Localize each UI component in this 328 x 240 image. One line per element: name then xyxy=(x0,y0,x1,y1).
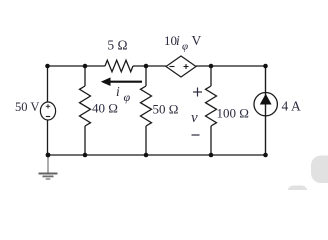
svg-text:50 Ω: 50 Ω xyxy=(153,102,179,117)
wire dependent source to top-right corner xyxy=(196,65,266,67)
svg-text:φ: φ xyxy=(182,41,188,53)
node dot bottom ground xyxy=(46,153,51,158)
wire left branch lower xyxy=(47,120,49,155)
dependent source minus sign xyxy=(170,66,175,68)
node dot top-right corner xyxy=(263,64,268,69)
node dot top 40 ohm xyxy=(83,64,88,69)
node dot bottom 40 ohm xyxy=(83,153,88,158)
ground stem xyxy=(47,155,49,173)
wire 100 ohm branch lower xyxy=(210,126,212,155)
svg-text:40 Ω: 40 Ω xyxy=(92,101,118,116)
wire 100 ohm branch upper xyxy=(210,66,212,86)
ground bars xyxy=(39,174,58,180)
node dot top 50 ohm xyxy=(144,64,149,69)
current source I1 4A circle xyxy=(254,93,277,116)
wire bottom rail xyxy=(48,154,266,156)
decorative grey blob bottom xyxy=(288,186,308,198)
dependent source plus sign xyxy=(184,64,189,69)
label v minus terminal xyxy=(192,134,200,136)
voltage source minus sign xyxy=(46,116,50,118)
current arrow i_phi (points left) xyxy=(101,77,142,86)
decorative grey blob right xyxy=(311,156,328,184)
dependent source U1 diamond 10 i_phi V xyxy=(166,56,196,77)
voltage source V1 50V circle xyxy=(40,102,55,120)
svg-text:V: V xyxy=(192,33,202,48)
node dot bottom-right corner xyxy=(263,153,268,158)
wire left branch upper xyxy=(47,66,49,103)
node dot bottom 100 ohm xyxy=(209,153,214,158)
svg-text:i: i xyxy=(176,33,180,48)
node dot top-left xyxy=(45,64,50,69)
svg-text:φ: φ xyxy=(124,90,131,104)
svg-text:v: v xyxy=(191,110,198,126)
node dot bottom 50 ohm xyxy=(144,153,149,158)
wire 40 ohm branch upper xyxy=(84,66,86,86)
resistor 5 ohm (horizontal zigzag) xyxy=(105,60,133,72)
wire 50 ohm branch lower xyxy=(145,126,147,155)
label v plus terminal xyxy=(193,88,202,97)
resistor 50 ohm (vertical zigzag) xyxy=(141,86,152,126)
svg-text:5 Ω: 5 Ω xyxy=(107,38,127,53)
label i_phi xyxy=(116,84,131,104)
wire 40 ohm branch lower xyxy=(84,126,86,155)
svg-text:100 Ω: 100 Ω xyxy=(217,106,249,121)
current source arrow head (up) xyxy=(260,94,272,105)
node dot top 100 ohm xyxy=(209,64,214,69)
voltage source plus sign xyxy=(46,104,50,108)
resistor 100 ohm (vertical zigzag) xyxy=(206,86,217,126)
label 10 i_phi V xyxy=(164,33,202,53)
wire 50 ohm branch upper xyxy=(145,66,147,86)
wire 4A branch (vertical through source) xyxy=(265,66,267,155)
svg-text:i: i xyxy=(116,84,120,99)
svg-text:4 A: 4 A xyxy=(282,99,301,114)
wire between 5 ohm and dependent source xyxy=(133,65,166,67)
resistor 40 ohm (vertical zigzag) xyxy=(80,86,91,126)
svg-text:50 V: 50 V xyxy=(15,100,39,114)
wire top rail left segment xyxy=(47,65,105,67)
